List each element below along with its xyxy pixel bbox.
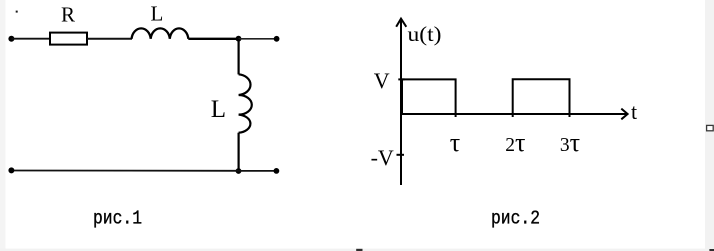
selection handle right-middle (707, 125, 714, 130)
wire: node A down to inductor L2 (238, 39, 240, 75)
svg-text:t: t (631, 99, 637, 124)
svg-text:u(t): u(t) (408, 22, 442, 46)
svg-text:R: R (61, 3, 75, 27)
svg-text:3τ: 3τ (560, 128, 580, 157)
t axis (horizontal) (400, 113, 627, 115)
wire: node B to right bottom terminal (239, 170, 277, 172)
selection handle bottom-center (356, 249, 362, 251)
wire: inductor L1 to node A (188, 38, 238, 40)
svg-text:2τ: 2τ (505, 128, 525, 157)
svg-text:рис.1: рис.1 (93, 207, 142, 229)
page margin left band (0, 0, 6, 251)
node: right bottom terminal (274, 168, 280, 174)
svg-text:-V: -V (371, 145, 394, 170)
node B (bottom junction) (236, 168, 242, 174)
svg-text:V: V (374, 68, 390, 93)
pulse 1 (402, 79, 456, 117)
svg-text:L: L (151, 1, 164, 25)
node: right top terminal (274, 36, 280, 42)
inductor L1 (132, 28, 189, 38)
node: left bottom terminal (8, 167, 14, 173)
speck dot top-left (16, 11, 18, 13)
t axis arrowhead (621, 109, 627, 120)
page margin bottom band (0, 249, 714, 251)
resistor R (50, 33, 87, 45)
wire: resistor to inductor L1 (87, 38, 132, 40)
V tick (398, 78, 404, 80)
wire: left terminal to resistor (11, 38, 50, 40)
node: left top terminal (8, 36, 14, 42)
pulse 2 (513, 79, 570, 117)
page margin right band (705, 0, 714, 251)
u axis (vertical) (400, 19, 402, 186)
node A (top junction) (236, 36, 242, 42)
wire: inductor L2 down to node B (238, 133, 240, 171)
inductor L2 (239, 74, 252, 132)
u axis arrowhead (396, 19, 406, 27)
wire: bottom wire left terminal to node B (11, 170, 238, 172)
svg-text:рис.2: рис.2 (491, 207, 540, 229)
selection handle bottom-right (709, 249, 714, 251)
wire: node A to right top terminal (239, 38, 277, 40)
-V tick (397, 154, 405, 156)
svg-text:L: L (211, 96, 226, 123)
svg-text:τ: τ (450, 128, 460, 157)
